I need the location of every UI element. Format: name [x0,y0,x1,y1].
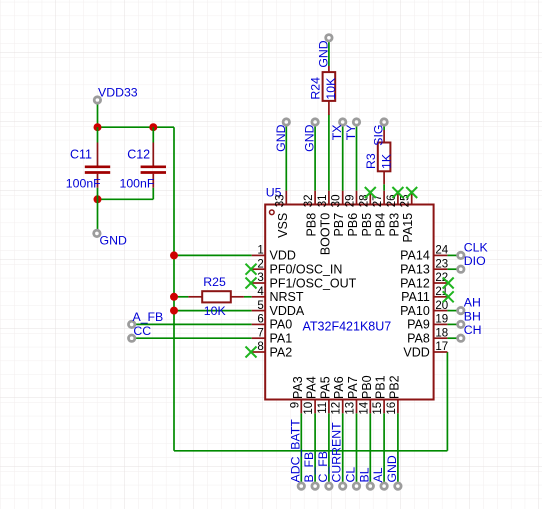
svg-text:PB1: PB1 [374,375,388,399]
svg-text:31: 31 [317,195,329,208]
net port GND (decoupling) [94,230,127,247]
no-connect X pin 3 [246,278,257,289]
net port BL [357,467,373,489]
net port C_FB [316,451,332,489]
U5 pin 8 PA2 [252,341,293,359]
net port ADC_BATT [288,419,304,490]
svg-text:R24: R24 [309,77,323,100]
no-connect X pin 22 [443,278,454,289]
wire VDD33 drop [97,103,99,127]
svg-text:3: 3 [257,272,263,284]
wire pin13 to CL [356,413,358,483]
wire pin to DIO [447,268,458,270]
svg-text:6: 6 [257,314,263,326]
svg-text:PA3: PA3 [291,376,305,399]
junction rail pin5 [170,307,178,315]
junction C12 top [149,123,157,131]
capacitor C12 [141,127,166,199]
svg-text:32: 32 [303,195,315,208]
net port TY (top pin col5) [344,119,360,140]
svg-text:VDD: VDD [403,345,429,359]
svg-text:1: 1 [257,245,263,257]
svg-text:29: 29 [345,195,357,208]
wire GND drop [97,199,99,230]
svg-text:PA5: PA5 [318,376,332,399]
U5 pin 16 PB2 [386,375,402,414]
wire R25 to NRST [244,296,252,298]
wire top bus VDD33 to rail [98,126,175,128]
U5 pin 14 PB0 [358,375,374,414]
svg-text:CL: CL [344,467,358,483]
svg-text:PA14: PA14 [400,249,430,263]
U5 pin 15 PB1 [372,375,388,414]
svg-text:11: 11 [317,402,329,414]
wire TX to PB7 [342,125,344,191]
net port A_FB [129,310,164,327]
wire SIG to R3 [383,125,385,130]
svg-text:17: 17 [435,341,448,353]
svg-text:AL: AL [371,467,385,482]
svg-text:R25: R25 [203,275,226,289]
net port GND (R24 top) [316,35,332,68]
resistor R25 [188,291,244,302]
svg-text:TX: TX [330,125,344,141]
wire pin14 to BL [369,413,371,483]
no-connect X pin 28 [365,187,376,198]
svg-text:PB7: PB7 [332,213,346,237]
U5 pin 10 PA4 [303,376,319,414]
svg-text:19: 19 [435,314,448,326]
U5 pin 33 VSS [274,191,290,238]
no-connect X pin 2 [246,264,257,275]
svg-text:18: 18 [435,327,448,339]
svg-text:GND: GND [316,40,330,67]
svg-text:CURRENT: CURRENT [330,422,344,483]
svg-text:PA7: PA7 [346,376,360,399]
svg-text:24: 24 [435,245,448,257]
net port CL [344,467,360,490]
svg-text:PA1: PA1 [270,332,293,346]
svg-text:PA15: PA15 [401,213,415,243]
U5 pin 20 PA10 [400,300,448,318]
net port VDD33 [94,86,138,104]
svg-text:AH: AH [464,296,481,310]
U5 pin 11 PA5 [317,376,333,414]
U5 pin 13 PA7 [345,376,361,414]
svg-text:CLK: CLK [464,240,489,254]
U5 pin 19 PA9 [407,314,448,332]
svg-text:PA4: PA4 [305,376,319,399]
no-connect X pin 25 [406,187,417,198]
wire rail to R25 [174,296,188,298]
U5 pin 3 PF1/OSC_OUT [252,272,357,290]
U5 pin 4 NRST [252,286,304,304]
IC U5 [265,205,433,400]
wire right riser to pin17 [446,352,448,451]
U5 pin 21 PA11 [401,286,448,304]
capacitor C11 [85,127,110,199]
net port GND (top pin col0) [274,119,290,152]
svg-text:C_FB: C_FB [316,451,330,482]
U5 pin 32 PB8 [303,191,319,237]
svg-text:2: 2 [257,258,263,270]
svg-text:CH: CH [464,323,482,337]
wire R3 to PB4 [383,184,385,190]
net port BH [458,309,481,327]
svg-text:DIO: DIO [464,254,486,268]
svg-text:PB4: PB4 [374,213,388,237]
U5 pin 31 BOOT0 [317,191,333,255]
pin-1 marker [270,210,275,215]
svg-text:PA6: PA6 [332,376,346,399]
U5 pin 1 VDD [252,245,296,263]
svg-text:8: 8 [257,341,263,353]
svg-text:GND: GND [274,124,288,151]
net port TX (top pin col4) [330,119,346,140]
U5 pin 30 PB7 [331,191,347,237]
svg-text:PA13: PA13 [400,263,430,277]
resistor R3 [378,130,391,184]
wire pin to CH [447,337,458,339]
no-connect X pin 26 [392,187,403,198]
U5 pin 22 PA12 [400,272,448,290]
U5 pin 17 VDD [403,341,448,359]
U5 pin 24 PA14 [400,245,449,263]
no-connect X pin 8 [246,347,257,358]
svg-text:26: 26 [386,195,398,208]
net port GND (top pin col2) [303,119,319,152]
svg-text:10: 10 [303,402,315,415]
svg-text:C11: C11 [70,148,92,162]
wire pin1 VDD [174,254,252,256]
svg-text:VDD33: VDD33 [98,86,138,100]
svg-text:CC: CC [133,324,151,338]
wire bottom bus [174,450,447,452]
svg-text:13: 13 [345,402,357,415]
wire pin10 to B_FB [314,413,316,483]
svg-text:100nF: 100nF [120,176,155,190]
junction rail pin1 [170,251,178,259]
svg-text:23: 23 [435,258,448,270]
svg-text:PB3: PB3 [387,213,401,237]
net port CLK [458,240,489,258]
U5 pin 7 PA1 [252,327,293,345]
svg-text:NRST: NRST [270,290,304,304]
svg-text:15: 15 [372,402,384,415]
resistor R24 [323,66,336,115]
wire pin to AH [447,310,458,312]
svg-text:30: 30 [331,195,343,208]
svg-text:C12: C12 [127,148,150,162]
svg-text:VDD: VDD [270,249,296,263]
svg-text:PA10: PA10 [400,304,430,318]
svg-text:PB8: PB8 [305,213,319,237]
svg-text:B_FB: B_FB [302,452,316,483]
svg-text:7: 7 [257,327,263,339]
junction rail R25 [170,293,178,301]
svg-text:AT32F421K8U7: AT32F421K8U7 [303,320,392,334]
svg-text:PF1/OSC_OUT: PF1/OSC_OUT [270,276,357,290]
svg-text:12: 12 [331,402,343,415]
svg-text:SIG: SIG [372,125,386,146]
no-connect X pin 21 [443,291,454,302]
wire C11 bottom to C12 bottom [98,198,154,200]
net port B_FB [302,452,318,490]
svg-text:PB0: PB0 [360,375,374,399]
svg-text:A_FB: A_FB [133,310,164,324]
svg-text:1K: 1K [379,153,393,169]
svg-text:14: 14 [358,401,370,414]
net port CH [458,323,482,341]
svg-text:5: 5 [257,300,263,312]
U5 pin 25 PA15 [400,191,416,243]
svg-text:4: 4 [257,286,264,298]
svg-text:TY: TY [344,125,358,141]
U5 pin 6 PA0 [252,314,293,332]
svg-text:PA8: PA8 [407,332,430,346]
U5 pin 28 PB5 [358,191,374,237]
svg-text:PB5: PB5 [360,213,374,237]
net port CC [129,324,152,341]
wire pin16 to GND [397,413,399,483]
U5 pin 29 PB6 [345,191,361,237]
U5 pin 5 VDDA [252,300,305,318]
U5 pin 12 PA6 [331,376,347,414]
U5 pin 2 PF0/OSC_IN [252,258,343,276]
junction VDD33-C11 [94,123,102,131]
svg-text:33: 33 [274,195,286,208]
svg-text:PA9: PA9 [407,318,430,332]
U5 pin 26 PB3 [386,191,402,237]
svg-text:28: 28 [358,195,370,208]
net port GND [385,455,401,489]
wire CC to PA1 [135,337,252,339]
svg-text:16: 16 [386,402,398,415]
net port AL [371,467,387,489]
wire GND to VSS [285,125,287,191]
svg-text:100nF: 100nF [66,176,101,190]
svg-text:10K: 10K [204,304,227,318]
svg-text:BOOT0: BOOT0 [318,213,332,255]
U5 pin 9 PA3 [289,376,305,413]
svg-text:BH: BH [464,309,481,323]
wire GND to R24 [328,41,330,66]
svg-text:9: 9 [289,402,301,408]
svg-text:20: 20 [435,300,448,312]
svg-text:GND: GND [303,124,317,151]
U5 pin 23 PA13 [400,258,448,276]
svg-text:PA11: PA11 [401,290,430,304]
svg-text:10K: 10K [324,77,338,100]
wire pin5 VDDA [174,310,252,312]
net port CURRENT [330,422,346,489]
wire R24 to BOOT0 [328,115,330,191]
U5 pin 18 PA8 [407,327,448,345]
svg-text:PA12: PA12 [400,276,430,290]
wire pin15 to AL [383,413,385,483]
wire pin12 to CURRENT [342,413,344,483]
svg-text:PA2: PA2 [270,345,293,359]
svg-text:GND: GND [385,455,399,482]
svg-text:BL: BL [357,467,371,482]
svg-text:VSS: VSS [276,213,290,238]
svg-text:ADC_BATT: ADC_BATT [288,419,302,483]
U5 pin 27 PB4 [372,191,388,237]
wire left rail vertical [173,127,175,451]
wire pin11 to C_FB [328,413,330,483]
net port AH [458,296,481,314]
wire pin to CLK [447,254,458,256]
svg-text:VDDA: VDDA [270,304,305,318]
net port SIG (top pin col7) [372,119,388,146]
wire pin9 to ADC_BATT [300,413,302,483]
wire TY to PB6 [356,125,358,191]
net port DIO [458,254,486,272]
svg-text:PA0: PA0 [270,318,293,332]
svg-text:PF0/OSC_IN: PF0/OSC_IN [270,263,343,277]
svg-text:PB6: PB6 [346,213,360,237]
wire GND to PB8 [314,125,316,191]
svg-text:PB2: PB2 [387,375,401,399]
svg-text:GND: GND [100,234,127,248]
wire A_FB to PA0 [135,323,252,325]
wire pin to BH [447,323,458,325]
junction C11 bottom [94,195,102,203]
svg-text:R3: R3 [364,153,378,169]
